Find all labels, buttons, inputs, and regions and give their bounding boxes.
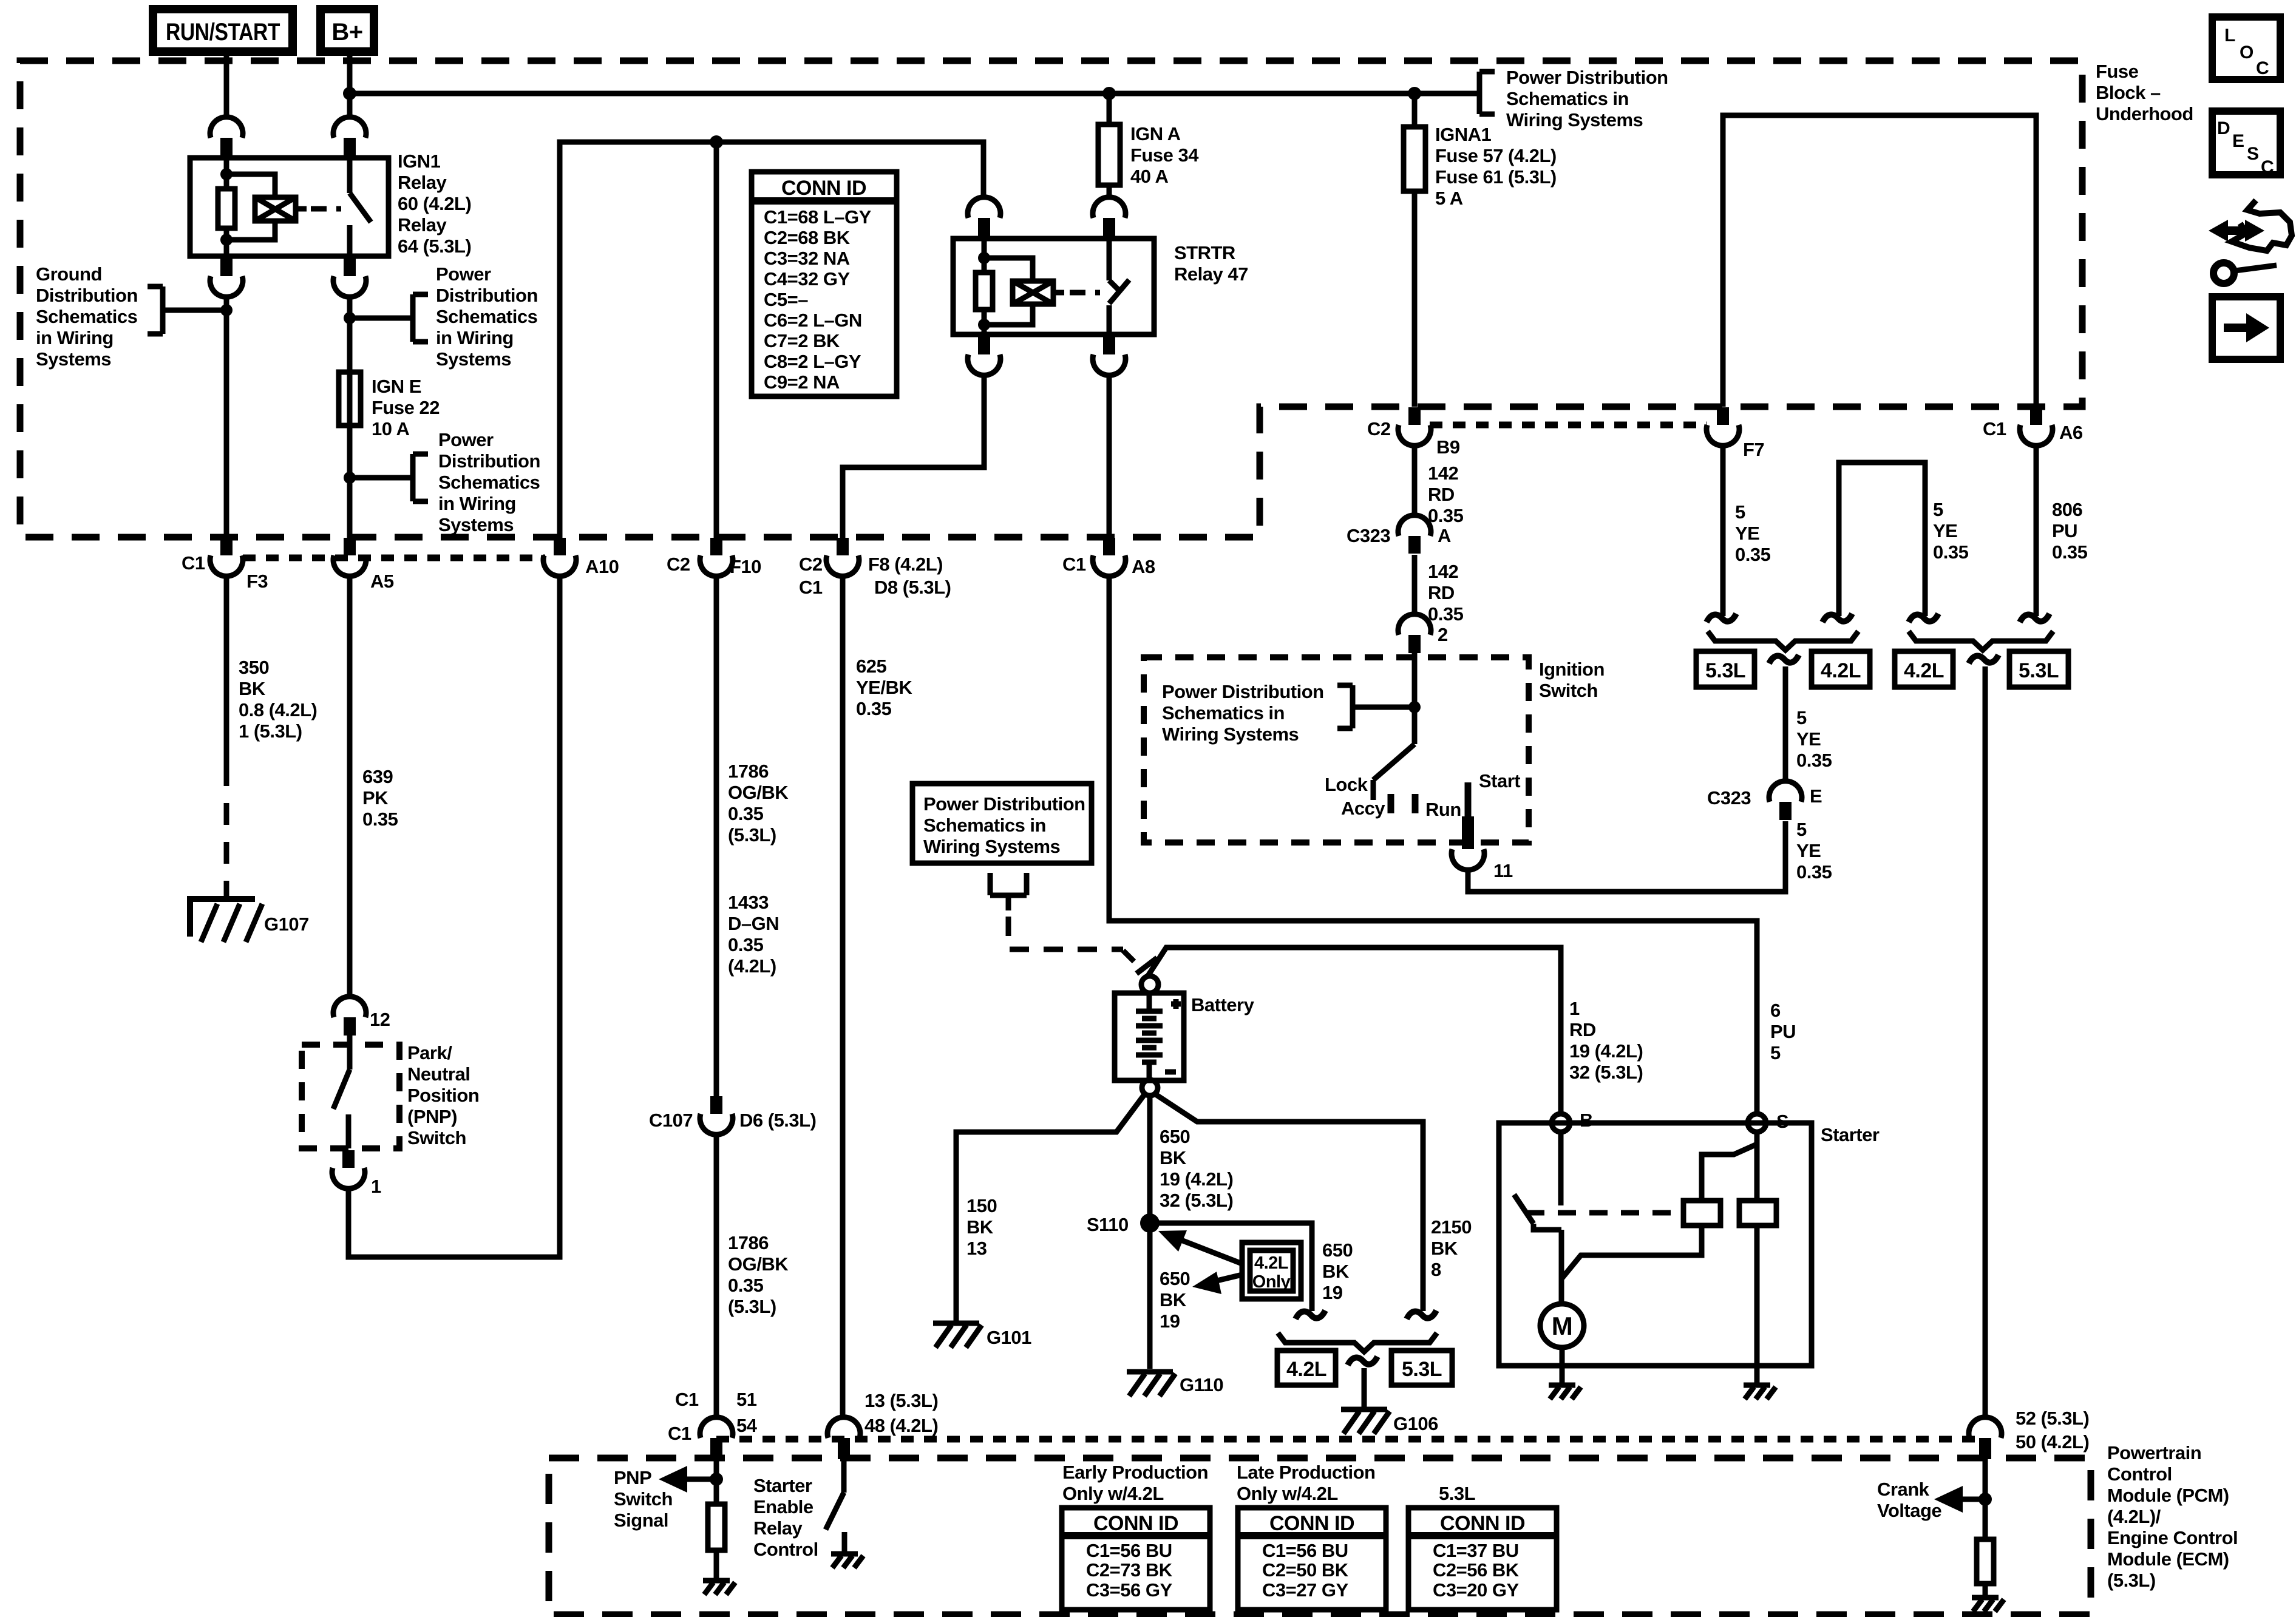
connector C2-C1 F8-D8 [799, 538, 951, 598]
connector pin into IGN1 switch [333, 117, 366, 155]
svg-text:Fuse 61 (5.3L): Fuse 61 (5.3L) [1435, 166, 1557, 188]
connector 13-48 starter enable [827, 1390, 938, 1459]
svg-text:Fuse: Fuse [2096, 61, 2139, 82]
svg-text:13: 13 [966, 1238, 987, 1259]
svg-text:0.8 (4.2L): 0.8 (4.2L) [239, 699, 317, 720]
svg-text:54: 54 [736, 1415, 758, 1436]
svg-text:C6=2 L–GN: C6=2 L–GN [764, 310, 862, 331]
ground G107 [190, 899, 309, 942]
coil actuator stub and dashes STRTR [1053, 290, 1064, 296]
svg-text:0.35: 0.35 [362, 808, 398, 830]
svg-text:51: 51 [736, 1389, 757, 1410]
callout box 4.2L Only [1242, 1242, 1301, 1299]
icon double arrow [2209, 220, 2264, 242]
node crank voltage tap [1978, 1493, 1992, 1506]
bracket power distribution 2 [350, 454, 428, 501]
wire motor to ground [1560, 1347, 1565, 1383]
svg-text:Battery: Battery [1191, 994, 1255, 1015]
node power distribution tap 1 [344, 312, 356, 324]
svg-text:650: 650 [1322, 1239, 1353, 1261]
svg-text:5: 5 [1796, 819, 1807, 840]
claw below brace 3 [1348, 1357, 1377, 1365]
starter S wire through coil 2 [1754, 1132, 1760, 1383]
wire 4.2L crank bridge [1839, 463, 1925, 616]
svg-text:1: 1 [1569, 998, 1580, 1019]
svg-text:C323: C323 [1347, 525, 1390, 546]
contact Start [1465, 782, 1472, 816]
svg-text:Early Production: Early Production [1062, 1462, 1208, 1483]
engine box 5.3L first [1696, 651, 1754, 687]
connector 12 PNP [333, 997, 390, 1036]
svg-text:625: 625 [856, 656, 886, 677]
connector pin below IGN1 switch [333, 259, 366, 297]
svg-text:1786: 1786 [728, 1232, 769, 1253]
svg-text:Fuse 57 (4.2L): Fuse 57 (4.2L) [1435, 145, 1557, 166]
svg-text:G110: G110 [1180, 1374, 1223, 1395]
svg-text:YE: YE [1735, 523, 1759, 544]
svg-text:A10: A10 [585, 556, 619, 577]
svg-text:(4.2L)/: (4.2L)/ [2107, 1506, 2161, 1527]
starter S link to coil 1 [1702, 1144, 1757, 1201]
wire STRTR switch to A8 [1107, 374, 1112, 538]
brace 1 5.3L-4.2L [1708, 631, 1858, 650]
claw below brace 2 [1969, 655, 1999, 663]
svg-text:6: 6 [1770, 1000, 1781, 1021]
svg-text:1786: 1786 [728, 761, 769, 782]
bracket ground distribution [148, 286, 226, 334]
claw 2150 wire end [1407, 1310, 1436, 1319]
svg-text:PU: PU [1770, 1021, 1796, 1042]
svg-text:639: 639 [362, 766, 393, 787]
svg-text:Distribution: Distribution [438, 450, 540, 472]
connector 1 PNP [332, 1150, 381, 1197]
svg-text:(5.3L): (5.3L) [728, 1296, 776, 1317]
wire F10 to C107 1786 OG/BK [714, 575, 719, 1096]
svg-text:Only w/4.2L: Only w/4.2L [1062, 1483, 1164, 1504]
svg-text:in Wiring: in Wiring [438, 493, 516, 514]
connector line C2 dotted row right [1430, 422, 1707, 429]
svg-text:A6: A6 [2059, 422, 2083, 443]
icon glove outline [2232, 200, 2292, 251]
svg-text:BK: BK [1160, 1289, 1187, 1310]
claw bridge right [1909, 614, 1938, 622]
engine box 4.2L second [1895, 651, 1953, 687]
wire battery positive riser [1147, 947, 1561, 1114]
svg-text:4.2L: 4.2L [1904, 659, 1944, 682]
svg-text:2150: 2150 [1431, 1216, 1472, 1238]
svg-text:Start: Start [1479, 770, 1520, 792]
connector pin into STRTR coil [968, 197, 1000, 236]
svg-text:0.35: 0.35 [1796, 861, 1832, 883]
svg-text:A8: A8 [1132, 556, 1155, 577]
svg-text:G106: G106 [1393, 1413, 1438, 1434]
node F10 tap [710, 135, 723, 149]
svg-text:Starter: Starter [1821, 1124, 1880, 1145]
relay STRTR coil vertical [982, 239, 987, 334]
svg-text:C3=20 GY: C3=20 GY [1433, 1579, 1519, 1601]
wire E to brace 5 YE [1783, 666, 1788, 780]
svg-text:Enable: Enable [753, 1496, 813, 1517]
node IGNA1 feed end [1408, 87, 1421, 100]
battery minus sign [1165, 1070, 1176, 1075]
node ground distribution tap [220, 304, 233, 316]
ground PCM PNP [703, 1581, 735, 1595]
svg-text:F8 (4.2L): F8 (4.2L) [868, 554, 943, 575]
svg-text:Power Distribution: Power Distribution [1506, 67, 1668, 88]
svg-text:Switch: Switch [1539, 680, 1598, 701]
connector C2 F10 [667, 538, 761, 577]
svg-text:BK: BK [966, 1216, 994, 1238]
table CONN ID early production [1062, 1508, 1210, 1610]
svg-text:B9: B9 [1436, 436, 1460, 458]
svg-text:C2: C2 [667, 554, 690, 575]
svg-text:O: O [2240, 42, 2254, 63]
svg-text:Ground: Ground [36, 263, 102, 285]
connector 2 ignition switch [1398, 614, 1448, 653]
terminal circle battery top [1141, 976, 1158, 993]
svg-text:650: 650 [1160, 1126, 1190, 1147]
svg-text:Power: Power [436, 263, 491, 285]
svg-text:Switch: Switch [407, 1127, 466, 1148]
connector 52-50 crank voltage [1969, 1408, 2089, 1459]
coil actuator stub and dashes IGN1 [296, 206, 307, 212]
svg-text:F7: F7 [1743, 439, 1764, 460]
terminal circle S [1748, 1111, 1788, 1132]
svg-text:0.35: 0.35 [1796, 750, 1832, 771]
svg-text:C: C [2256, 58, 2269, 78]
connector A5 [333, 538, 394, 592]
claw below brace 1 [1769, 655, 1799, 663]
svg-text:5.3L: 5.3L [1705, 659, 1745, 682]
svg-text:Voltage: Voltage [1877, 1500, 1941, 1521]
svg-text:Relay: Relay [753, 1517, 803, 1539]
resistor IGN1 internal [218, 189, 235, 228]
svg-text:C2: C2 [799, 554, 823, 575]
svg-text:C8=2 L–GY: C8=2 L–GY [764, 351, 861, 372]
svg-text:IGNA1: IGNA1 [1435, 124, 1492, 145]
node B+ junction [343, 87, 356, 100]
svg-text:IGN A: IGN A [1130, 123, 1181, 144]
svg-text:C9=2 NA: C9=2 NA [764, 371, 840, 393]
svg-text:C3=27 GY: C3=27 GY [1262, 1579, 1348, 1601]
svg-text:RD: RD [1428, 582, 1455, 603]
node IGN A fuse tap [1102, 87, 1116, 100]
connector F7 [1707, 407, 1764, 460]
svg-text:C2=73 BK: C2=73 BK [1086, 1559, 1173, 1581]
svg-text:C1=56 BU: C1=56 BU [1086, 1540, 1172, 1561]
svg-text:5: 5 [1933, 499, 1943, 520]
contact Run [1412, 794, 1419, 813]
claw 650 wire end [1296, 1310, 1325, 1319]
terminal B+ [321, 9, 374, 52]
relay STRTR box [953, 239, 1154, 334]
svg-text:0.35: 0.35 [856, 698, 892, 719]
resistor PCM PNP [708, 1504, 725, 1550]
arrow 4.2L Only to 650 label [1192, 1272, 1242, 1294]
wire battery negative left branch 150 BK [956, 1094, 1145, 1321]
wire F3 to ground 350 BK [224, 575, 229, 764]
svg-text:D8 (5.3L): D8 (5.3L) [874, 577, 951, 598]
svg-text:Wiring Systems: Wiring Systems [923, 836, 1060, 857]
svg-text:OG/BK: OG/BK [728, 1253, 789, 1275]
svg-text:L: L [2224, 25, 2235, 46]
svg-text:PU: PU [2052, 520, 2077, 541]
arrow crank voltage [1934, 1486, 1985, 1513]
svg-text:19: 19 [1322, 1282, 1343, 1303]
arrow 4.2L Only to S110 [1158, 1230, 1242, 1264]
PCM dashed box [549, 1458, 2091, 1615]
svg-text:CONN ID: CONN ID [1093, 1512, 1178, 1535]
svg-text:(5.3L): (5.3L) [2107, 1570, 2156, 1591]
ground PCM crank [1972, 1598, 2004, 1612]
wire dashed battery feed [1008, 917, 1123, 949]
svg-text:Only: Only [1252, 1272, 1291, 1292]
svg-text:Neutral: Neutral [407, 1063, 470, 1085]
svg-text:Systems: Systems [438, 514, 514, 535]
svg-text:Powertrain: Powertrain [2107, 1442, 2201, 1463]
engine box 5.3L ground [1391, 1351, 1452, 1385]
svg-text:1433: 1433 [728, 892, 769, 913]
svg-text:5 A: 5 A [1435, 188, 1463, 209]
wire PNP 1 to A10 [348, 575, 560, 1257]
svg-text:11: 11 [1493, 860, 1513, 881]
svg-text:Power Distribution: Power Distribution [1162, 681, 1324, 702]
ground starter solenoid [1744, 1385, 1776, 1399]
svg-text:CONN ID: CONN ID [1440, 1512, 1525, 1535]
svg-text:YE/BK: YE/BK [856, 677, 912, 698]
wire B9 to C323 A 142 RD [1412, 445, 1418, 514]
svg-text:Module (ECM): Module (ECM) [2107, 1548, 2229, 1570]
wire F10 drop inside fuse block [714, 142, 719, 538]
resistor STRTR internal [976, 273, 993, 310]
wire brace 3 to G106 [1362, 1368, 1367, 1407]
wire B+ horizontal bus to IGNA1 [350, 91, 1415, 97]
svg-text:Control: Control [2107, 1463, 2172, 1485]
svg-text:C1=37 BU: C1=37 BU [1433, 1540, 1519, 1561]
switch STRTR [1109, 239, 1129, 334]
svg-text:OG/BK: OG/BK [728, 782, 789, 803]
wire 11 to C323 E [1468, 821, 1785, 892]
connector C323 A [1347, 515, 1451, 554]
battery plus sign [1171, 999, 1181, 1009]
switch PNP blade [333, 1036, 350, 1148]
wire IGN1 switch to A5 [347, 296, 353, 538]
connector C1 A8 [1062, 538, 1155, 577]
relay STRTR coil nodes [978, 252, 990, 264]
svg-text:C107: C107 [649, 1110, 693, 1131]
svg-text:13 (5.3L): 13 (5.3L) [864, 1390, 938, 1411]
svg-text:Relay: Relay [398, 214, 447, 236]
battery plates [1136, 993, 1163, 1080]
svg-text:1: 1 [371, 1176, 381, 1197]
wire dashed to G107 [224, 764, 229, 897]
svg-text:Block –: Block – [2096, 82, 2161, 103]
wire ignition feed internal [1412, 653, 1418, 744]
connector pin into IGN1 coil [210, 117, 243, 155]
svg-text:S: S [2247, 144, 2259, 164]
svg-text:806: 806 [2052, 499, 2082, 520]
svg-text:in Wiring: in Wiring [36, 327, 114, 348]
svg-text:50 (4.2L): 50 (4.2L) [2016, 1431, 2089, 1453]
svg-text:0.35: 0.35 [728, 934, 764, 955]
svg-text:C1: C1 [799, 577, 823, 598]
svg-text:Park/: Park/ [407, 1042, 452, 1063]
svg-text:B+: B+ [331, 19, 362, 46]
svg-text:Only w/4.2L: Only w/4.2L [1237, 1483, 1338, 1504]
svg-text:Crank: Crank [1877, 1479, 1930, 1500]
svg-text:8: 8 [1431, 1259, 1441, 1280]
svg-text:Module (PCM): Module (PCM) [2107, 1485, 2229, 1506]
connector pin below STRTR coil [968, 337, 1000, 375]
engine box 4.2L first [1812, 651, 1870, 687]
svg-text:D–GN: D–GN [728, 913, 779, 934]
wire ignition feed bus A10-F10-STRTR coil [560, 142, 983, 538]
icon LOC box [2212, 17, 2280, 80]
svg-text:Starter: Starter [753, 1475, 812, 1496]
switch ignition blade [1373, 744, 1415, 800]
engine box 5.3L second [2009, 651, 2068, 687]
connector pin into STRTR switch [1093, 197, 1126, 236]
fuse IGN E [339, 372, 361, 425]
svg-text:Ignition: Ignition [1539, 659, 1605, 680]
icon forward arrow box [2212, 297, 2280, 359]
svg-text:Lock: Lock [1325, 774, 1368, 795]
icon wrench [2213, 263, 2277, 283]
wire crank voltage internal [1983, 1459, 1988, 1539]
svg-text:C2=68 BK: C2=68 BK [764, 227, 851, 248]
svg-text:D: D [2217, 118, 2230, 138]
starter box [1499, 1123, 1812, 1366]
contact Accy [1388, 794, 1394, 813]
wire fuse 34 to STRTR switch [1107, 185, 1112, 196]
wire RUN/START to IGN1 relay [224, 56, 229, 116]
svg-text:C4=32 GY: C4=32 GY [764, 268, 850, 290]
fuse block underhood dashed box [20, 61, 2082, 537]
svg-text:5: 5 [1735, 501, 1745, 523]
PNP switch dashed box [302, 1045, 399, 1148]
svg-text:A5: A5 [370, 571, 394, 592]
wire S110 right branch 650 BK [1150, 1223, 1312, 1311]
svg-text:19 (4.2L): 19 (4.2L) [1160, 1168, 1233, 1190]
svg-text:Fuse 22: Fuse 22 [372, 397, 440, 418]
switch battery feed ticks [1123, 951, 1157, 974]
connector C1 51-54 [668, 1389, 758, 1459]
svg-text:Power Distribution: Power Distribution [923, 793, 1085, 815]
svg-text:Wiring Systems: Wiring Systems [1162, 724, 1299, 745]
ground starter enable [831, 1554, 863, 1568]
svg-text:in Wiring: in Wiring [436, 327, 514, 348]
svg-text:Distribution: Distribution [36, 285, 138, 306]
claw F7 wire end [1707, 614, 1736, 622]
connector line C1 dotted row [243, 555, 545, 561]
svg-text:A: A [1438, 525, 1451, 546]
svg-text:Signal: Signal [614, 1510, 668, 1531]
svg-text:Fuse 34: Fuse 34 [1130, 144, 1199, 166]
svg-text:BK: BK [1322, 1261, 1350, 1282]
svg-text:0.35: 0.35 [728, 1275, 764, 1296]
svg-text:5: 5 [1796, 707, 1807, 728]
svg-text:Schematics in: Schematics in [1162, 702, 1285, 724]
svg-text:YE: YE [1796, 840, 1821, 861]
svg-text:M: M [1552, 1312, 1573, 1340]
svg-text:19: 19 [1160, 1310, 1180, 1332]
battery box [1115, 993, 1184, 1080]
starter solenoid coil 2 [1739, 1201, 1776, 1225]
svg-text:C3=32 NA: C3=32 NA [764, 248, 850, 269]
starter motor feed [1561, 1225, 1702, 1305]
svg-text:F10: F10 [730, 556, 761, 577]
svg-text:(4.2L): (4.2L) [728, 955, 776, 977]
relay STRTR coil loop [984, 258, 1033, 325]
icon DESC box [2212, 111, 2280, 177]
switch IGN1 [350, 158, 371, 256]
svg-text:YE: YE [1933, 520, 1957, 541]
wire F7-A6 internal bridge [1723, 115, 2036, 407]
svg-text:12: 12 [370, 1009, 390, 1030]
svg-text:0.35: 0.35 [1933, 541, 1969, 563]
starter dashed actuator link [1526, 1210, 1682, 1216]
svg-text:BK: BK [1431, 1238, 1458, 1259]
svg-text:350: 350 [239, 657, 269, 678]
wire IGN1 coil to F3 [224, 296, 229, 538]
svg-text:52 (5.3L): 52 (5.3L) [2016, 1408, 2089, 1429]
table CONN ID fuse block [752, 172, 897, 396]
connector pin below IGN1 coil [210, 259, 243, 297]
svg-text:(5.3L): (5.3L) [728, 824, 776, 846]
svg-text:5.3L: 5.3L [2019, 659, 2059, 682]
svg-text:PK: PK [362, 787, 389, 808]
svg-text:STRTR: STRTR [1174, 242, 1235, 263]
svg-text:0.35: 0.35 [1428, 603, 1464, 625]
starter switch upper contact [1558, 1132, 1564, 1205]
svg-text:Systems: Systems [36, 348, 111, 370]
svg-text:BK: BK [1160, 1147, 1187, 1168]
node PNP signal tap [710, 1473, 723, 1486]
svg-text:Position: Position [407, 1085, 479, 1106]
bracket power distribution ignition [1337, 685, 1415, 728]
svg-text:Schematics: Schematics [36, 306, 137, 327]
svg-text:Relay: Relay [398, 172, 447, 193]
wire battery negative center to S110 [1147, 1096, 1153, 1223]
svg-text:1 (5.3L): 1 (5.3L) [239, 720, 302, 742]
node power distribution tap 2 [344, 472, 356, 484]
fuse IGNA1 [1404, 127, 1425, 191]
svg-text:BK: BK [239, 678, 266, 699]
svg-text:5.3L: 5.3L [1439, 1483, 1475, 1504]
svg-text:32 (5.3L): 32 (5.3L) [1569, 1062, 1643, 1083]
claw bridge left [1822, 614, 1852, 622]
svg-text:D6 (5.3L): D6 (5.3L) [739, 1110, 816, 1131]
ground G110 [1127, 1372, 1223, 1396]
svg-text:0.35: 0.35 [1735, 544, 1771, 565]
starter solenoid coil 1 [1683, 1201, 1720, 1225]
relay IGN1 box [190, 158, 389, 256]
wire STRTR coil to F8 [843, 374, 984, 538]
svg-text:32 (5.3L): 32 (5.3L) [1160, 1190, 1233, 1211]
svg-text:E: E [1810, 785, 1822, 807]
svg-text:C1: C1 [1983, 418, 2006, 439]
svg-text:48 (4.2L): 48 (4.2L) [864, 1415, 938, 1436]
fuse IGN A 34 [1098, 124, 1120, 185]
wire crank voltage to PCM [1983, 666, 1988, 1416]
connector C1 A6 [1983, 407, 2083, 446]
svg-text:CONN ID: CONN ID [781, 177, 866, 200]
svg-text:60 (4.2L): 60 (4.2L) [398, 193, 471, 214]
wire S110 to G110 [1147, 1223, 1153, 1369]
svg-text:0.35: 0.35 [2052, 541, 2088, 563]
svg-text:0.35: 0.35 [728, 803, 764, 824]
svg-text:Schematics in: Schematics in [1506, 88, 1629, 109]
